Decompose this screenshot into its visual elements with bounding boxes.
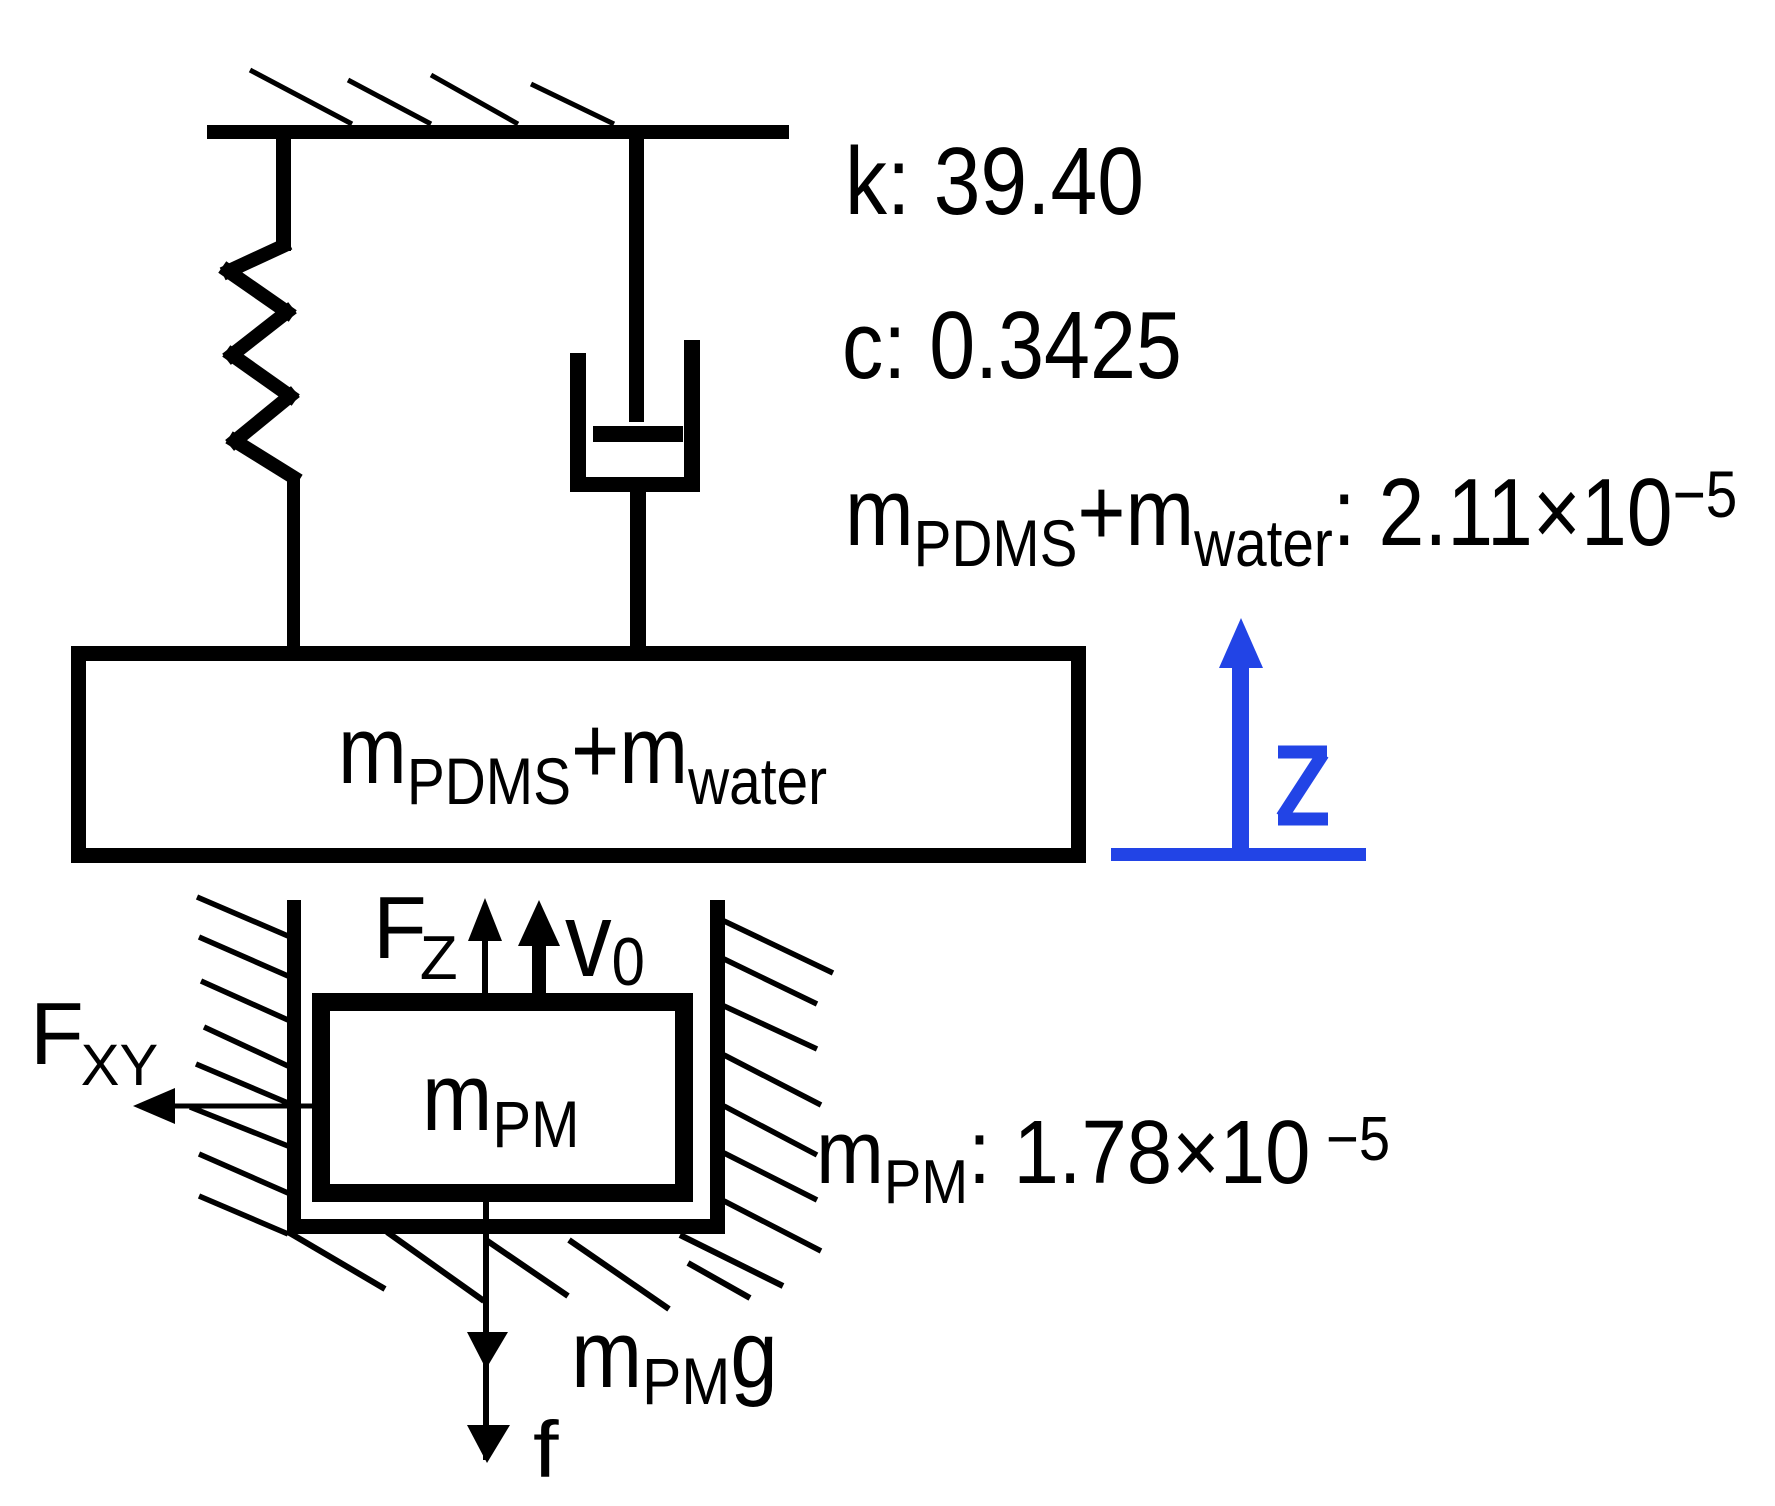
left wall hatch 3 xyxy=(201,981,288,1020)
force arrow FXY xyxy=(173,1104,313,1109)
damper c lower rod xyxy=(630,492,646,646)
damper c cylinder bottom xyxy=(570,477,700,492)
left wall hatch 8 xyxy=(199,1196,288,1234)
damper c cylinder left wall xyxy=(570,353,586,492)
ceiling hatch 1 xyxy=(250,70,352,124)
right column text k xyxy=(845,128,1144,235)
bottom hatch 3 xyxy=(486,1240,568,1296)
label mPDMS+mwater xyxy=(338,696,827,819)
mass block mPDMS+mwater xyxy=(79,654,1079,856)
channel right wall xyxy=(710,900,725,1234)
velocity arrow v0 xyxy=(532,944,546,993)
left wall hatch 2 xyxy=(199,937,288,976)
bottom hatch 5 xyxy=(680,1235,783,1286)
ceiling hatch 3 xyxy=(431,75,518,124)
svg-text:c: 0.3425: c: 0.3425 xyxy=(842,291,1182,398)
right column text c xyxy=(842,291,1182,398)
label f xyxy=(533,1406,560,1495)
channel left wall xyxy=(287,900,301,1234)
damper c cylinder right wall xyxy=(684,340,700,490)
ceiling hatch 4 xyxy=(531,84,614,124)
right wall hatch 5 xyxy=(724,1106,817,1155)
svg-text:k: 39.40: k: 39.40 xyxy=(845,128,1144,235)
bottom hatch 1 xyxy=(288,1232,385,1289)
label mPM xyxy=(422,1044,579,1162)
right column text mPDMS+mwater value xyxy=(845,458,1737,581)
weight arrow shaft xyxy=(483,1202,489,1460)
force arrow FZ xyxy=(482,939,488,993)
svg-text:f: f xyxy=(533,1406,560,1495)
label v0 xyxy=(565,882,645,1000)
label mPMg xyxy=(571,1301,778,1418)
right wall hatch 4 xyxy=(724,1055,821,1105)
right wall hatch 3 xyxy=(724,1006,817,1049)
damper c piston plate xyxy=(593,426,683,442)
spring k zigzag xyxy=(228,246,293,477)
left wall hatch 4 xyxy=(204,1027,288,1066)
right wall hatch 2 xyxy=(724,959,817,1004)
left wall hatch 5 xyxy=(196,1064,288,1103)
weight arrowhead mPMg xyxy=(467,1332,508,1369)
bottom hatch 2 xyxy=(387,1232,484,1301)
right column text mPM value xyxy=(816,1102,1390,1216)
spring k upper rod xyxy=(276,139,291,251)
fixed ceiling xyxy=(207,125,789,139)
right wall hatch 7 xyxy=(724,1201,821,1251)
z axis arrow shaft (blue) xyxy=(1232,665,1249,855)
z axis baseline (blue) xyxy=(1111,848,1366,861)
left wall hatch 6 xyxy=(190,1107,288,1146)
ceiling hatch 2 xyxy=(348,80,431,124)
channel bottom wall xyxy=(287,1219,725,1234)
left wall hatch 7 xyxy=(199,1154,288,1193)
left wall hatch 1 xyxy=(197,897,288,936)
damper c piston rod xyxy=(629,139,644,422)
mass block mPM xyxy=(321,1002,684,1193)
bottom hatch 4 xyxy=(569,1240,669,1309)
label z (blue) xyxy=(1278,752,1328,819)
spring k lower rod xyxy=(287,476,300,646)
right wall hatch 6 xyxy=(724,1153,817,1200)
z axis arrowhead (blue) xyxy=(1219,618,1263,668)
right wall hatch 1 xyxy=(724,921,833,973)
arrowhead f xyxy=(467,1425,510,1463)
bottom hatch 6 xyxy=(688,1263,750,1298)
